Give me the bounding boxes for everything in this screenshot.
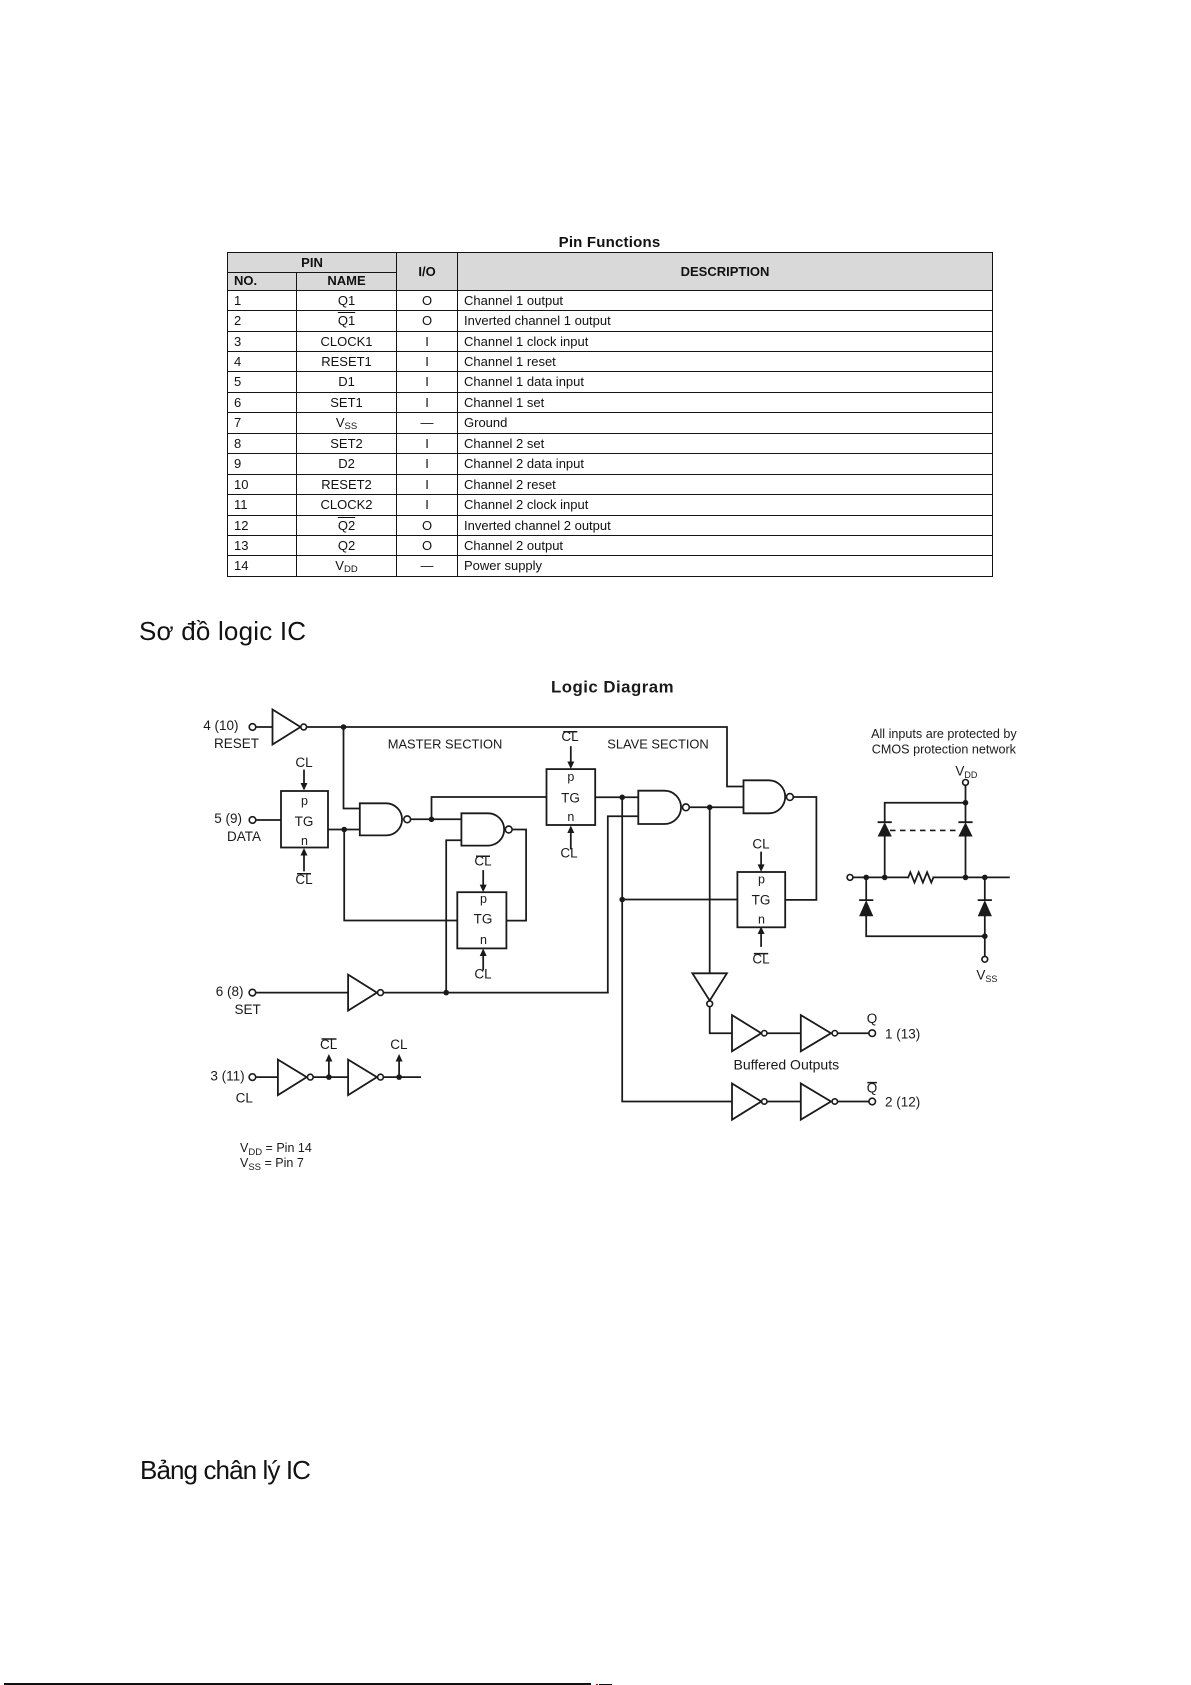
svg-text:p: p <box>567 770 574 784</box>
svg-text:n: n <box>480 933 487 947</box>
svg-text:CL: CL <box>390 1037 408 1052</box>
svg-text:CL: CL <box>560 845 578 860</box>
svg-text:Q: Q <box>867 1080 878 1095</box>
svg-text:CL: CL <box>320 1037 338 1052</box>
svg-text:p: p <box>758 873 765 887</box>
svg-text:CL: CL <box>295 755 313 770</box>
svg-text:TG: TG <box>474 911 493 926</box>
svg-text:CMOS protection network: CMOS protection network <box>872 743 1017 757</box>
svg-text:RESET: RESET <box>214 736 259 751</box>
svg-text:SET: SET <box>235 1002 261 1017</box>
svg-text:n: n <box>758 913 765 927</box>
svg-text:2 (12): 2 (12) <box>885 1095 920 1110</box>
svg-text:CL: CL <box>236 1090 254 1105</box>
svg-text:CL: CL <box>561 729 579 744</box>
svg-text:VSS = Pin 7: VSS = Pin 7 <box>240 1156 304 1173</box>
svg-text:VSS: VSS <box>976 967 997 984</box>
svg-text:CL: CL <box>474 853 492 868</box>
svg-text:Buffered Outputs: Buffered Outputs <box>734 1057 840 1073</box>
svg-text:CL: CL <box>752 836 770 851</box>
svg-text:TG: TG <box>295 814 314 829</box>
svg-text:DATA: DATA <box>227 829 261 844</box>
svg-text:p: p <box>480 892 487 906</box>
svg-text:All inputs are protected by: All inputs are protected by <box>871 727 1017 741</box>
svg-text:TG: TG <box>752 892 771 907</box>
svg-text:SLAVE SECTION: SLAVE SECTION <box>607 736 708 751</box>
svg-text:5 (9): 5 (9) <box>214 811 242 826</box>
svg-text:CL: CL <box>752 951 770 966</box>
svg-text:6 (8): 6 (8) <box>216 984 244 999</box>
svg-text:Logic Diagram: Logic Diagram <box>551 677 674 696</box>
svg-text:Q: Q <box>867 1011 878 1026</box>
svg-text:1 (13): 1 (13) <box>885 1026 920 1041</box>
svg-text:CL: CL <box>474 966 492 981</box>
svg-text:n: n <box>567 810 574 824</box>
svg-text:MASTER SECTION: MASTER SECTION <box>388 736 503 751</box>
svg-text:VDD: VDD <box>955 763 978 780</box>
svg-text:CL: CL <box>295 872 313 887</box>
svg-text:TG: TG <box>561 790 580 805</box>
svg-text:p: p <box>301 794 308 808</box>
svg-text:n: n <box>301 834 308 848</box>
svg-text:3 (11): 3 (11) <box>210 1068 244 1083</box>
svg-text:4 (10): 4 (10) <box>203 718 238 733</box>
